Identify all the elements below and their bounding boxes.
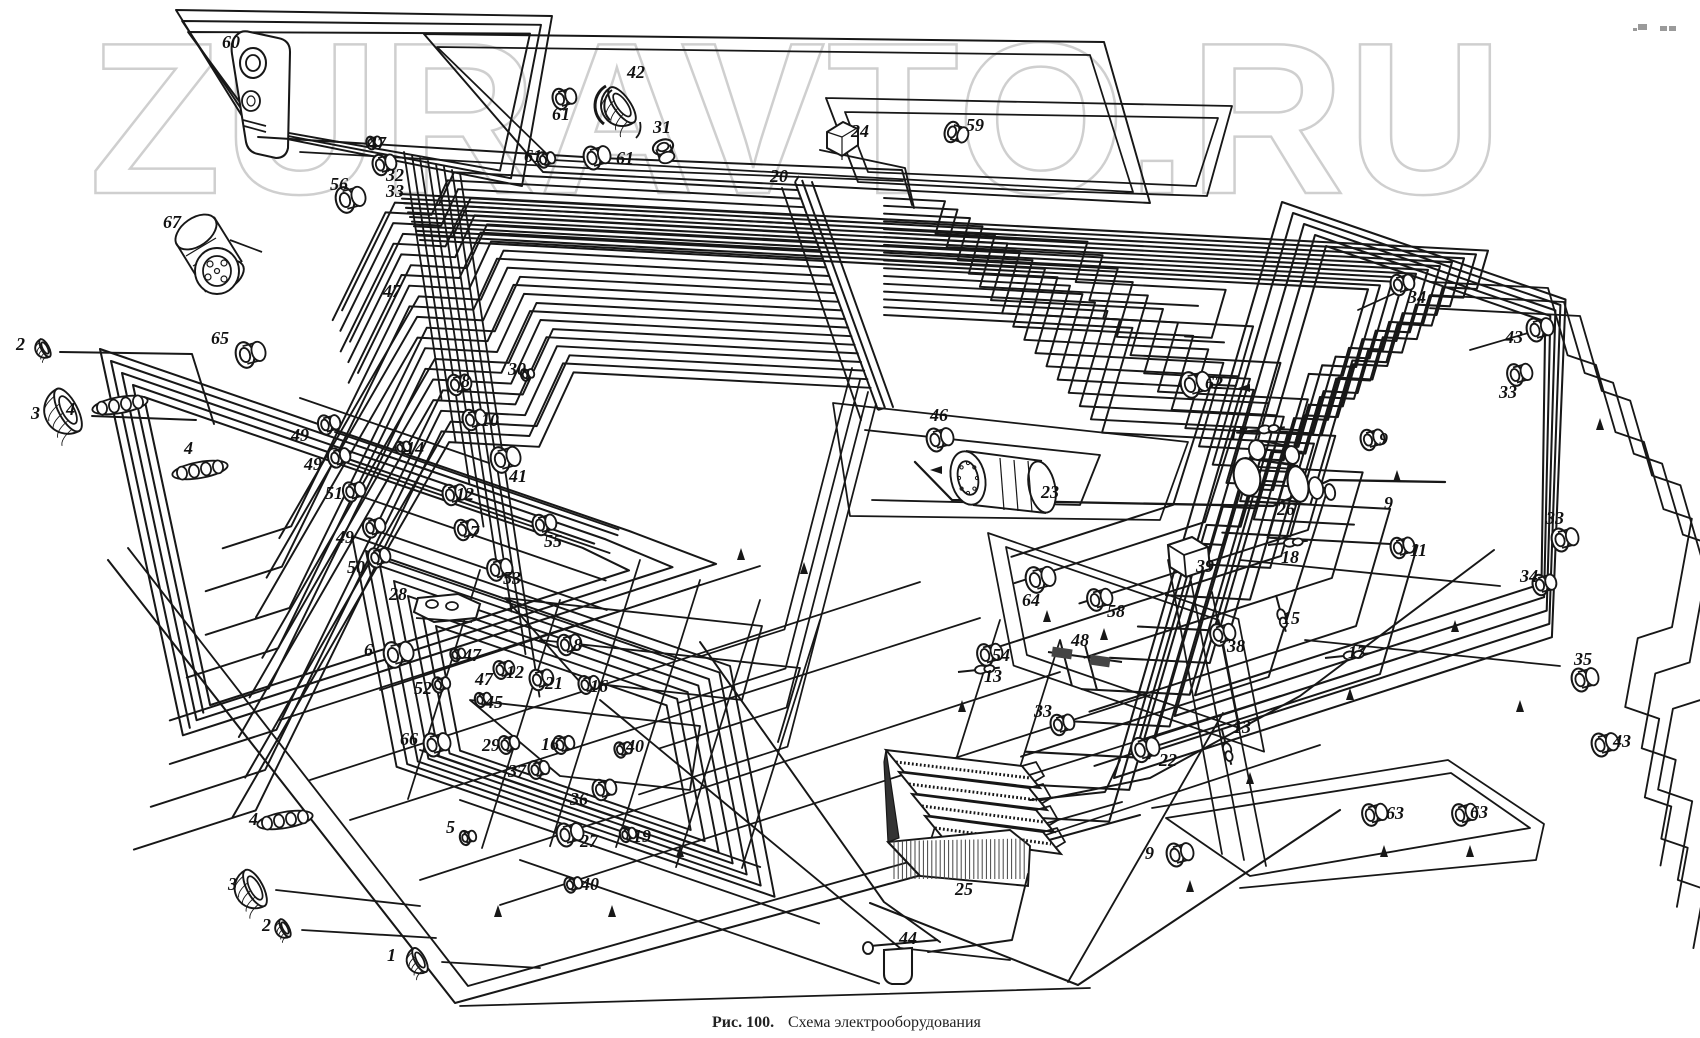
wire lattice drop [922, 620, 1000, 868]
svg-text:8: 8 [461, 371, 470, 391]
svg-text:61: 61 [524, 146, 542, 166]
wire lattice up-right [310, 582, 920, 780]
svg-text:17: 17 [1348, 642, 1367, 662]
wire left board loop open [111, 361, 618, 728]
bulb 61 [536, 151, 557, 169]
wire drop band [420, 158, 470, 484]
pin 18 [1268, 538, 1308, 547]
wire battery cable 2 [928, 874, 1028, 952]
cap 10 [460, 408, 488, 432]
wire center woven bundle [884, 214, 1253, 557]
svg-text:3: 3 [227, 874, 237, 894]
wire top bundle [400, 194, 1488, 505]
pin 13b [1222, 730, 1234, 765]
svg-text:53: 53 [503, 568, 521, 588]
wire dash fan [250, 320, 852, 697]
wire board row [300, 398, 489, 463]
svg-text:61: 61 [552, 104, 570, 124]
wire lower loop [394, 581, 733, 863]
wire generator loop [833, 403, 1188, 520]
starter 26 [1230, 439, 1336, 504]
wire lead 43 [1470, 333, 1528, 350]
wire dash fan [279, 251, 826, 538]
connector 4c [256, 807, 314, 832]
wire bottom edge long [460, 988, 1090, 1006]
wire top bundle [410, 217, 1428, 663]
svg-text:9: 9 [1379, 429, 1388, 449]
plug 43b [1524, 317, 1555, 344]
wire dash fan [245, 355, 864, 777]
switch 50 [366, 547, 392, 569]
switch 59 [942, 120, 970, 144]
wire drop band [436, 164, 498, 569]
svg-text:16: 16 [590, 676, 608, 696]
motor 27 [554, 822, 585, 849]
wire lattice drop [408, 570, 480, 799]
svg-text:Рис. 100.: Рис. 100. [712, 1014, 774, 1031]
svg-text:36: 36 [569, 789, 588, 809]
svg-text:41: 41 [508, 466, 527, 486]
svg-text:19: 19 [633, 826, 651, 846]
wire center woven bundle [884, 292, 1390, 712]
wire instrument panel loop [988, 533, 1264, 752]
wire right board loop [1195, 246, 1545, 695]
wire board row [345, 462, 610, 553]
wire to lamp 35 [1305, 640, 1560, 666]
svg-text:47: 47 [367, 133, 387, 153]
wire windshield loop outer [424, 34, 1150, 203]
svg-text:65: 65 [211, 328, 229, 348]
wire dash fan [223, 242, 823, 549]
wire dash fan [233, 372, 871, 817]
wire top bundle [408, 212, 1440, 631]
svg-text:10: 10 [481, 410, 499, 430]
cap 21 [527, 668, 555, 692]
socket 33a [1505, 362, 1534, 387]
plug 34 [1388, 273, 1416, 297]
wire board row [380, 532, 607, 610]
wire dash fan [358, 225, 816, 373]
svg-text:29: 29 [481, 735, 500, 755]
svg-text:61: 61 [616, 148, 634, 168]
wire dash fan [342, 172, 797, 310]
svg-text:37: 37 [507, 761, 527, 781]
wire lattice row [420, 750, 760, 867]
wire windshield loop inner [437, 47, 1133, 192]
horn 33c [1048, 713, 1076, 737]
svg-text:27: 27 [579, 831, 599, 851]
wire dash fan [262, 303, 845, 658]
cap 52 [431, 676, 452, 694]
gauge 41 [488, 445, 523, 475]
wire lamp2 lead [302, 930, 436, 938]
resistor 37 [527, 760, 551, 781]
harness comb 20 [795, 176, 885, 410]
socket 32 33 [370, 153, 398, 177]
lamp 63b [1450, 802, 1479, 827]
svg-text:67: 67 [163, 212, 182, 232]
wire dash fan [350, 198, 806, 341]
svg-text:39: 39 [1195, 556, 1214, 576]
wire center woven bundle [884, 307, 1418, 766]
wire left board loop open [133, 385, 594, 713]
tiny logo marks top-right [1633, 24, 1676, 31]
svg-text:49: 49 [290, 425, 309, 445]
connector 4b [171, 457, 229, 482]
svg-text:58: 58 [1107, 601, 1125, 621]
wire lamp platform loop outer [1152, 760, 1544, 888]
ground arrow symbols [494, 384, 1604, 917]
cap 40 [613, 741, 634, 759]
wire top bundle [414, 226, 1404, 726]
wire lower loop [352, 536, 775, 897]
svg-text:Схема электрооборудования: Схема электрооборудования [788, 1014, 982, 1031]
svg-text:50: 50 [347, 557, 365, 577]
switch 49b [326, 447, 352, 469]
lamp 63 [1360, 802, 1389, 827]
wire right board loop [1155, 224, 1556, 737]
wire right board loop [1114, 202, 1566, 778]
wire center woven bundle [884, 237, 1250, 583]
wire top bundle [416, 231, 1392, 758]
svg-text:33: 33 [385, 181, 404, 201]
cap 12b [492, 660, 516, 681]
svg-text:34: 34 [1519, 566, 1538, 586]
wire bottom V 3 [870, 810, 1340, 985]
cap 8b [555, 633, 583, 657]
wire center woven bundle [884, 299, 1354, 524]
ring 6 [381, 640, 416, 670]
svg-text:25: 25 [954, 879, 973, 899]
wire lamp3 lead [276, 890, 420, 906]
wire right board loop [1134, 213, 1560, 757]
resistor 36 [590, 778, 618, 802]
svg-text:16: 16 [541, 734, 559, 754]
wire center woven bundle [884, 253, 1276, 416]
pin 17 [1240, 424, 1285, 434]
wire dash fan [187, 294, 842, 678]
wire roof-panel outline [182, 21, 541, 178]
cap 7 [452, 518, 480, 542]
pin 13 [958, 665, 1000, 675]
svg-text:2: 2 [261, 915, 271, 935]
wire comb drop [699, 368, 852, 657]
wire dash fan [341, 206, 810, 351]
headlamp 3b [228, 866, 274, 919]
svg-text:14: 14 [406, 438, 424, 458]
svg-text:62: 62 [1205, 373, 1223, 393]
wire bottom V 2 [128, 548, 1122, 986]
bulb 5 [458, 830, 477, 846]
fuse block 48 [1048, 640, 1122, 690]
wire lower loop [436, 626, 691, 830]
svg-text:38: 38 [1226, 636, 1245, 656]
svg-text:60: 60 [222, 32, 240, 52]
socket 61 [581, 145, 612, 172]
wire fuse loop [826, 98, 1232, 196]
wire drop to platform [1212, 592, 1266, 866]
wire board row [390, 562, 674, 660]
wire lamp platform loop [1166, 773, 1530, 876]
svg-text:24: 24 [850, 121, 869, 141]
wire right board loop [1175, 235, 1551, 716]
svg-text:4: 4 [183, 438, 193, 458]
svg-text:7: 7 [470, 522, 480, 542]
cap 16 [577, 675, 601, 696]
svg-text:42: 42 [626, 62, 645, 82]
wire right margin zigzag [1430, 295, 1700, 907]
bulb 14 [394, 441, 411, 456]
svg-text:34: 34 [1407, 287, 1426, 307]
buzzer 66 [421, 732, 452, 759]
svg-text:15: 15 [1282, 608, 1300, 628]
wire dash fan [170, 329, 855, 764]
svg-text:33: 33 [1498, 382, 1517, 402]
wire top bundle [412, 222, 1416, 695]
cap 53 [485, 557, 514, 582]
svg-text:11: 11 [1410, 540, 1427, 560]
wire drop band [452, 170, 526, 654]
wire left board loop [144, 397, 629, 705]
svg-text:22: 22 [1158, 750, 1177, 770]
pin 17b [1325, 650, 1370, 660]
wire drop band [404, 152, 442, 399]
wire fuse loop inner [845, 112, 1218, 186]
svg-text:54: 54 [992, 645, 1010, 665]
svg-text:2: 2 [15, 334, 25, 354]
headlamp 3 [36, 385, 90, 447]
wire lower bit c [470, 700, 700, 790]
svg-text:47: 47 [462, 645, 482, 665]
switch 49c [361, 517, 387, 539]
svg-text:63: 63 [1386, 803, 1404, 823]
wire lattice drop [482, 600, 560, 848]
cap 55 [530, 513, 558, 537]
wire center woven bundle [884, 221, 1224, 342]
wire roof-panel outline [188, 32, 530, 171]
wire bottom V 1 [108, 560, 1140, 1003]
wire lower loop [408, 596, 719, 852]
wire instrument panel loop [1006, 547, 1240, 728]
grommet 11 [1388, 536, 1416, 560]
svg-text:64: 64 [1022, 590, 1040, 610]
wire left board loop [122, 373, 673, 720]
svg-text:40: 40 [580, 874, 599, 894]
cap 58 [1085, 587, 1114, 612]
svg-text:12: 12 [506, 662, 524, 682]
wire roof-panel outline [176, 10, 552, 186]
svg-text:28: 28 [388, 584, 407, 604]
wire comb top feed [820, 150, 914, 208]
wire main feed 23-26 [915, 462, 1445, 506]
wire drop band [460, 173, 540, 697]
wire center woven bundle [884, 245, 1308, 482]
svg-text:4: 4 [65, 399, 75, 419]
pin 15 [1276, 595, 1288, 632]
relay 65 [233, 340, 268, 370]
svg-text:66: 66 [400, 729, 418, 749]
wire from 22 down [1068, 713, 1223, 982]
svg-text:44: 44 [898, 928, 917, 948]
wire left board loop [100, 349, 716, 735]
connector 4 [91, 392, 149, 417]
svg-text:5: 5 [446, 817, 455, 837]
battery 25 [884, 750, 1065, 886]
plug 34b [1530, 573, 1558, 597]
wire lower bit b [540, 640, 800, 742]
wire lower loop [380, 566, 747, 875]
svg-text:1: 1 [387, 945, 396, 965]
wire comb drop [679, 380, 860, 703]
cap 54 [975, 642, 1004, 667]
wire dash fan [267, 268, 833, 578]
cap 29 [497, 735, 521, 756]
wire lattice up-right [500, 695, 1150, 905]
plug 43 [1589, 732, 1620, 759]
switch 49 [316, 414, 342, 436]
wire center woven bundle [884, 268, 1302, 452]
svg-text:47: 47 [382, 281, 402, 301]
wire dash fan [206, 277, 836, 635]
wire drop to platform [1168, 560, 1222, 854]
grommet 9 [1358, 428, 1386, 452]
cap 8 [445, 373, 473, 397]
sidelamp 2 [32, 338, 54, 364]
wire battery cable 1 [1030, 760, 1120, 800]
svg-text:13: 13 [1233, 717, 1251, 737]
svg-text:3: 3 [30, 403, 40, 423]
wire lattice drop [550, 560, 640, 846]
svg-text:35: 35 [1573, 649, 1592, 669]
dome lamp 60 [232, 31, 290, 158]
lamp 1 [402, 946, 432, 981]
wire dash fan [239, 337, 858, 737]
wire dash fan [340, 189, 803, 331]
svg-text:63: 63 [1470, 802, 1488, 822]
fuse block 24 [827, 122, 858, 160]
wire lattice row [460, 800, 819, 924]
wire lattice row [520, 860, 879, 984]
wire lattice up-right [350, 618, 980, 820]
wire bottom cable extra [700, 642, 940, 942]
wire lattice up-right [420, 672, 1060, 880]
switch 28 [414, 594, 480, 622]
wire top bundle [418, 235, 1380, 790]
motor 22 [1129, 736, 1162, 764]
wire top bundle [420, 240, 1368, 822]
svg-text:55: 55 [544, 531, 562, 551]
wire roof feed lower [300, 152, 903, 181]
svg-text:47: 47 [474, 669, 494, 689]
wire comb drop [659, 392, 868, 749]
svg-text:40: 40 [625, 736, 644, 756]
svg-text:4: 4 [248, 809, 258, 829]
wire battery to frame [1032, 550, 1494, 802]
wire drop band [412, 155, 456, 442]
sensor 62 [1178, 370, 1213, 400]
wire dash fan [206, 259, 829, 592]
svg-text:18: 18 [1281, 547, 1299, 567]
wire dash fan [333, 180, 801, 320]
svg-text:8: 8 [573, 635, 582, 655]
svg-text:43: 43 [1504, 327, 1523, 347]
svg-text:21: 21 [544, 673, 563, 693]
wire center woven bundle [884, 276, 1363, 658]
svg-text:56: 56 [330, 174, 348, 194]
svg-text:59: 59 [966, 115, 984, 135]
wire headlamp lead 2 [92, 416, 196, 420]
wire top bundle [404, 203, 1464, 568]
svg-text:26: 26 [1276, 499, 1295, 519]
wire lattice up-right [1000, 745, 1320, 850]
wire lower loop [366, 551, 761, 886]
switch 56 [333, 185, 368, 215]
grommet 9c [1164, 842, 1195, 869]
bulb 30 [520, 368, 536, 381]
svg-text:20: 20 [769, 166, 788, 186]
svg-text:43: 43 [1612, 731, 1631, 751]
horn button 31 [651, 137, 676, 166]
screw 47c [449, 648, 466, 663]
lamp 42 [593, 83, 644, 138]
valve 38 [1208, 622, 1237, 647]
svg-text:9: 9 [1145, 843, 1154, 863]
wire center woven bundle [884, 206, 1198, 306]
wire board row [360, 496, 606, 581]
relay 39 [1168, 537, 1210, 577]
wire dash fan [151, 346, 861, 807]
sidelamp 2b [272, 918, 294, 944]
svg-text:49: 49 [303, 454, 322, 474]
wire generator loop inner [865, 430, 1100, 505]
wire drop to platform [1190, 576, 1244, 860]
wire lattice up-right [280, 566, 760, 720]
wire beside comb 2 [782, 188, 861, 420]
wire board row [335, 432, 619, 530]
wire right margin zigzag [1430, 308, 1700, 948]
cap 16b [552, 735, 576, 756]
wire center woven bundle [884, 284, 1328, 757]
wire lattice drop [988, 640, 1060, 869]
wire bottom V 4 [600, 700, 1010, 960]
svg-text:33: 33 [1545, 508, 1564, 528]
wire right margin zigzag [1430, 282, 1692, 866]
wire center woven bundle [884, 198, 1226, 338]
wire center woven bundle [884, 315, 1314, 651]
bulb 19 [618, 827, 637, 843]
wire dash fan [134, 363, 868, 849]
wire lattice up-right [950, 696, 1280, 800]
wire lattice up-right [380, 585, 700, 690]
sender 44 [863, 940, 938, 984]
wire roof feed [258, 137, 912, 205]
wire dash fan [348, 215, 813, 362]
wire lattice drop [742, 620, 820, 868]
svg-text:45: 45 [484, 692, 503, 712]
svg-text:31: 31 [652, 117, 671, 137]
svg-text:48: 48 [1070, 630, 1089, 650]
wire lower bit a [505, 598, 762, 700]
socket 33b [1549, 527, 1580, 554]
screw 47 [365, 136, 382, 151]
switch 51 [341, 481, 367, 503]
svg-text:23: 23 [1040, 482, 1059, 502]
svg-text:52: 52 [414, 678, 432, 698]
wire center woven bundle [884, 229, 1281, 434]
wire comb drop [639, 404, 876, 794]
wire dash fan [349, 233, 820, 383]
svg-text:46: 46 [929, 405, 948, 425]
